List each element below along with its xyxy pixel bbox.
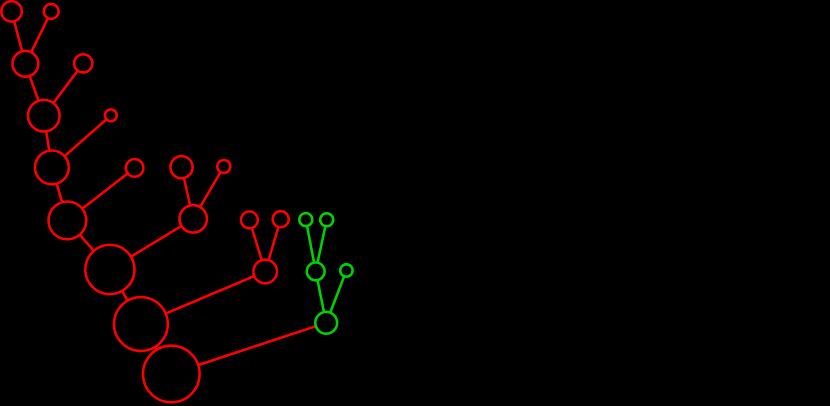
node B xyxy=(13,51,39,77)
wire edge C1b-P1 xyxy=(200,173,220,207)
wire edge G2-G0 xyxy=(330,277,344,313)
node Ds xyxy=(126,159,144,177)
wire edge C2b-P2 xyxy=(269,227,279,259)
wire edge C-D xyxy=(46,132,49,151)
node G0 xyxy=(315,312,337,334)
node G xyxy=(114,297,168,351)
node Cs xyxy=(105,109,117,121)
node F xyxy=(85,245,134,294)
node P1 xyxy=(180,205,207,232)
node C1a xyxy=(170,156,192,178)
wire edge A2-B xyxy=(31,18,48,52)
wire edge B-C xyxy=(30,76,39,100)
node P2 xyxy=(253,260,277,284)
wire edge G0-H xyxy=(199,326,316,365)
wire edge F-G xyxy=(122,291,127,300)
wire edge Ds-E xyxy=(83,174,128,209)
wire edge A1-B xyxy=(14,22,22,51)
wire edge G1b-G1 xyxy=(318,227,326,263)
wire edge C1a-P1 xyxy=(184,178,190,205)
wire edge Bs-C xyxy=(54,71,78,103)
node G1a xyxy=(299,213,312,226)
wire edge Cs-D xyxy=(65,120,106,156)
node Bs xyxy=(74,54,92,72)
node E xyxy=(49,202,87,240)
wire edge P2-G xyxy=(166,276,254,313)
node C2b xyxy=(273,211,289,227)
node G2 xyxy=(340,264,352,276)
node C2a xyxy=(241,212,258,229)
wire edge E-F xyxy=(80,235,94,251)
wire edge C2a-P2 xyxy=(252,228,262,259)
wire edge G-H xyxy=(155,347,156,349)
node G1b xyxy=(320,213,333,226)
node A1 xyxy=(1,1,21,21)
wire edge D-E xyxy=(57,184,62,202)
node G1 xyxy=(307,263,325,281)
node D xyxy=(35,151,69,185)
wire edge G1-G0 xyxy=(318,281,324,312)
wire edge P1-F xyxy=(131,226,181,256)
node C1b xyxy=(217,160,230,173)
node C xyxy=(28,100,60,132)
wire edge G1a-G1 xyxy=(307,226,314,262)
node H xyxy=(143,346,200,403)
node A2 xyxy=(44,4,59,19)
